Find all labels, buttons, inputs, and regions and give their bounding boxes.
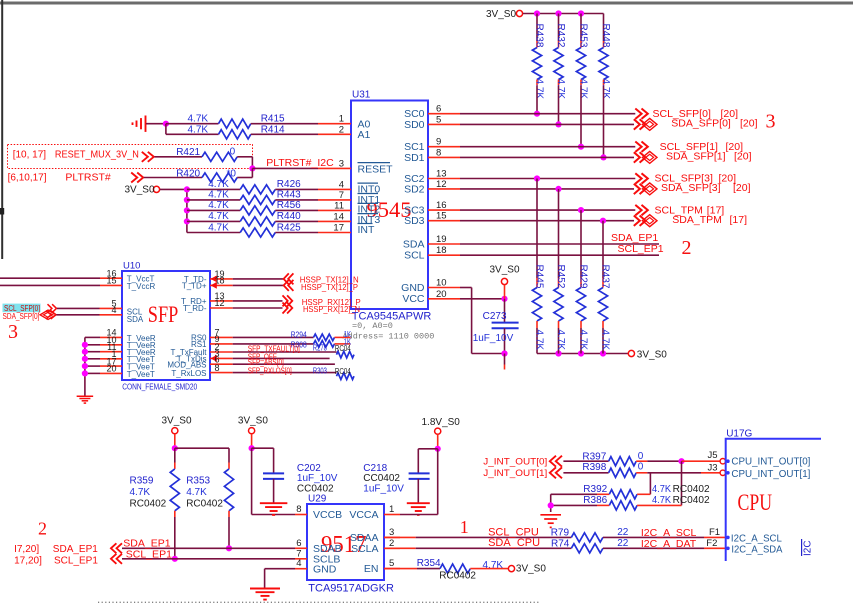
resistor R359 4.7K: [174, 448, 176, 462]
wire GND pin4 U29: [265, 568, 295, 570]
svg-text:SDA: SDA: [127, 315, 144, 324]
junction: [555, 121, 561, 127]
svg-text:R397: R397: [582, 451, 606, 462]
wire 3V to column: [160, 188, 187, 190]
svg-text:8: 8: [436, 147, 441, 158]
power 3V_S0: [172, 428, 178, 434]
pin CPU_INT_OUT[0]: [726, 459, 730, 463]
ground G2 SFP: [77, 395, 94, 397]
junction: [600, 154, 606, 160]
resistor R386 4.7K: [551, 504, 597, 506]
net HSSP_RX[12]_N: [233, 307, 283, 309]
svg-text:R443: R443: [277, 190, 301, 201]
svg-text:U10: U10: [123, 261, 140, 272]
pin 8 U29 VCCB: [295, 514, 307, 516]
net SCL_EP1: [460, 254, 659, 256]
junction: [82, 363, 88, 369]
capacitor C273 1uF_10V: [504, 299, 506, 322]
wire R354 to 3V: [470, 568, 508, 570]
svg-text:16: 16: [436, 200, 447, 211]
svg-text:SDA_CPU: SDA_CPU: [488, 537, 540, 549]
pin 2 U31: [318, 133, 351, 135]
power 3V_S0 R354: [508, 566, 514, 572]
svg-text:I2C: I2C: [803, 540, 814, 556]
net SDA_SFP[1]: [460, 156, 634, 158]
svg-text:SDA_TPM: SDA_TPM: [672, 214, 722, 226]
resistor R452 4.7K: [558, 189, 560, 278]
svg-text:0: 0: [230, 147, 236, 158]
svg-text:RC0402: RC0402: [130, 499, 167, 510]
svg-text:RC0402: RC0402: [439, 570, 476, 581]
svg-text:TCA9517ADGKR: TCA9517ADGKR: [308, 583, 394, 595]
net SCL_SFP[0]: [460, 113, 635, 115]
resistor R420 *0: [144, 177, 202, 179]
svg-text:VCC: VCC: [402, 293, 425, 305]
resistor R354 4.7K: [384, 568, 417, 570]
svg-text:15: 15: [436, 211, 447, 222]
svg-text:SDA_SFP[3]: SDA_SFP[3]: [661, 182, 721, 194]
resistor R392 4.7K: [551, 493, 597, 495]
svg-text:18: 18: [436, 245, 447, 256]
pin 14 SFP T_VeeR: [85, 336, 100, 338]
svg-text:0: 0: [638, 451, 644, 462]
junction: [578, 207, 584, 213]
svg-text:22: 22: [617, 538, 629, 549]
wire power stub: [251, 434, 253, 448]
resistor R429 4.7K: [580, 210, 582, 278]
resistor R308 1K: [233, 343, 314, 345]
svg-text:17,20]: 17,20]: [14, 556, 42, 567]
capacitor C202 1uF_10V: [252, 447, 274, 449]
svg-text:22: 22: [617, 527, 629, 538]
junction: [226, 545, 232, 551]
svg-text:4.7K: 4.7K: [208, 222, 229, 233]
junction: [578, 10, 584, 16]
pin 18 SFP T_TD+: [210, 284, 233, 286]
svg-text:R445: R445: [534, 265, 545, 289]
svg-text:R426: R426: [277, 179, 301, 190]
svg-text:4.7K: 4.7K: [534, 330, 545, 351]
pin 4 U29 GND: [295, 568, 307, 570]
svg-text:SDA_EP1: SDA_EP1: [611, 232, 658, 244]
pin 17 SFP T_VeeT: [85, 365, 100, 367]
resistor R440 4.7K: [187, 220, 240, 222]
svg-text:4.7K: 4.7K: [600, 330, 611, 351]
svg-text:SCLA: SCLA: [351, 543, 378, 555]
wire stub below C273: [504, 354, 506, 365]
pin 5 SFP SCL: [57, 307, 100, 309]
svg-text:3V_S0: 3V_S0: [486, 9, 516, 20]
svg-text:SDA: SDA: [403, 238, 425, 250]
junction: [600, 350, 606, 356]
svg-text:12: 12: [215, 298, 225, 308]
pin 7 U29 SCLB: [295, 558, 307, 560]
net SCL_SFP[3]: [460, 178, 635, 180]
net HSSP_RX[12]_P: [233, 300, 283, 302]
wire to J5: [682, 460, 721, 462]
wire 3V_S0 top rail: [523, 13, 604, 15]
svg-text:10: 10: [436, 278, 447, 289]
svg-text:T_VeeT: T_VeeT: [127, 370, 155, 379]
svg-text:4.7K: 4.7K: [208, 190, 229, 201]
svg-text:J_INT_OUT[0]: J_INT_OUT[0]: [483, 457, 547, 468]
svg-text:RC04: RC04: [335, 343, 351, 353]
svg-text:4.7K: 4.7K: [534, 79, 545, 100]
svg-text:3: 3: [8, 321, 18, 343]
selection box RESET_MUX: [8, 145, 253, 169]
wire lower rail 3V_S0: [537, 353, 628, 355]
svg-text:SFP: SFP: [148, 302, 179, 327]
svg-text:R425: R425: [277, 222, 301, 233]
svg-text:1uF_10V: 1uF_10V: [473, 333, 514, 344]
resistor R456 4.7K: [187, 209, 240, 211]
pin 3 U29 SDAA: [384, 536, 400, 538]
svg-text:15: 15: [106, 276, 116, 286]
svg-text:4.7K: 4.7K: [208, 179, 229, 190]
svg-text:GND: GND: [401, 282, 425, 294]
svg-text:INT: INT: [358, 224, 376, 236]
wire 3V_S0 to VCCB: [251, 448, 253, 514]
svg-text:12: 12: [436, 179, 447, 190]
net SDA_CPU resistor R74 22: [384, 547, 416, 549]
svg-text:R303: R303: [313, 366, 327, 376]
svg-text:5: 5: [436, 114, 441, 125]
svg-text:R452: R452: [555, 265, 566, 289]
svg-text:6: 6: [436, 104, 441, 115]
ground G5 U29: [250, 588, 280, 590]
svg-text:I2C_A_SDA: I2C_A_SDA: [731, 545, 782, 556]
svg-text:SFP_RXLOS[0]: SFP_RXLOS[0]: [248, 366, 292, 375]
pin 6 U29 SDAB: [295, 547, 307, 549]
wire 1.8V to VCCA: [437, 449, 439, 515]
wire GND pin10: [460, 287, 472, 289]
junction: [184, 197, 190, 203]
svg-text:3: 3: [766, 111, 776, 133]
svg-text:RC0402: RC0402: [186, 499, 223, 510]
svg-text:SCL: SCL: [404, 250, 425, 262]
svg-text:SDA_EP1: SDA_EP1: [53, 544, 98, 555]
wire J5 tap down: [681, 461, 683, 505]
wire R453 to bus: [580, 86, 582, 147]
svg-text:Address= 1110 0000: Address= 1110 0000: [343, 332, 435, 342]
svg-text:PLTRST#: PLTRST#: [65, 172, 110, 184]
svg-text:4.7K: 4.7K: [188, 124, 209, 135]
wire power stub: [504, 285, 506, 299]
resistor R453 4.7K: [580, 14, 582, 42]
svg-text:I7,20]: I7,20]: [14, 544, 39, 555]
svg-text:4.7K: 4.7K: [130, 487, 151, 498]
pin J5 bubble: [720, 459, 725, 464]
resistor R426 4.7K: [187, 188, 240, 190]
net SDA_SFP[0]: [460, 123, 634, 125]
junction: [249, 165, 255, 171]
svg-text:4.7K: 4.7K: [208, 200, 229, 211]
svg-text:3V_S0: 3V_S0: [162, 415, 192, 426]
svg-text:U29: U29: [308, 494, 327, 505]
pin 20 U31 VCC: [428, 298, 460, 300]
svg-text:SDA_EP1: SDA_EP1: [123, 537, 170, 549]
power 3V_S0: [501, 278, 507, 284]
svg-text:4.7K: 4.7K: [555, 330, 566, 351]
svg-text:R437: R437: [600, 265, 611, 289]
junction: [548, 502, 554, 508]
junction: [184, 207, 190, 213]
svg-text:5: 5: [389, 558, 394, 569]
svg-text:CONN_FEMALE_SMD20: CONN_FEMALE_SMD20: [122, 382, 197, 392]
svg-text:3V_S0: 3V_S0: [637, 350, 667, 361]
svg-text:PLTRST#_I2C: PLTRST#_I2C: [266, 157, 334, 169]
wire 3V to R353: [175, 447, 229, 449]
svg-text:I2C_A_DAT: I2C_A_DAT: [641, 538, 697, 550]
svg-text:R359: R359: [130, 476, 154, 487]
junction: [555, 186, 561, 192]
svg-text:3: 3: [389, 527, 394, 538]
svg-text:9: 9: [436, 137, 441, 148]
svg-text:13: 13: [436, 169, 447, 180]
wire J3 tap down: [649, 473, 651, 495]
net SFP_ABS[0]: [233, 363, 335, 365]
pin 4 SFP SDA: [56, 314, 99, 316]
svg-text:4.7K: 4.7K: [188, 114, 209, 125]
svg-text:U17G: U17G: [726, 429, 752, 440]
pin 11 SFP T_VeeR: [85, 351, 100, 353]
resistor R414 4.7K: [166, 133, 219, 135]
pin 19 SFP T_TD-: [210, 278, 233, 280]
net SDA_EP1: [460, 243, 659, 245]
svg-text:4: 4: [111, 305, 116, 315]
svg-text:4: 4: [296, 558, 301, 569]
svg-text:R353: R353: [186, 476, 210, 487]
border frame: [0, 2, 853, 5]
junction: [534, 10, 540, 16]
pin 2 SFP T_TxFault: [210, 351, 233, 353]
net PLTRST#_I2C: [252, 167, 318, 169]
ground G6: [540, 514, 561, 516]
resistor R438 4.7K: [536, 14, 538, 42]
wire R438 to bus: [536, 86, 538, 114]
pin 12 U31 SD2: [428, 188, 460, 190]
resistor R443 4.7K: [187, 199, 240, 201]
svg-text:3V_S0: 3V_S0: [238, 415, 268, 426]
resistor R294 1K: [233, 336, 314, 338]
svg-text:U31: U31: [352, 90, 371, 101]
svg-text:SCL_EP1: SCL_EP1: [54, 556, 98, 567]
svg-text:R354: R354: [417, 558, 441, 569]
svg-text:R440: R440: [277, 211, 301, 222]
wire branch down: [165, 124, 167, 135]
svg-text:4.7K: 4.7K: [652, 484, 671, 495]
svg-text:=0, A0=0: =0, A0=0: [352, 321, 393, 331]
svg-text:4: 4: [339, 179, 344, 190]
svg-text:4.7K: 4.7K: [578, 79, 589, 100]
svg-text:4.7K: 4.7K: [555, 79, 566, 100]
junction: [184, 186, 190, 192]
junction: [534, 111, 540, 117]
svg-text:C273: C273: [483, 311, 507, 322]
wire GND down: [471, 288, 473, 354]
svg-text:SD1: SD1: [404, 152, 425, 164]
svg-text:1: 1: [460, 517, 469, 537]
resistor R425 4.7K: [187, 232, 240, 234]
svg-text:SD0: SD0: [404, 119, 425, 131]
pin I2C_A_SCL: [726, 536, 730, 540]
junction: [578, 144, 584, 150]
svg-text:EN: EN: [364, 563, 379, 575]
pin 15 SFP T_VccR: [0, 284, 100, 286]
svg-text:R420: R420: [176, 169, 200, 180]
pin 13 SFP T_RD+: [210, 300, 233, 302]
pin 6 U31 SC0: [428, 113, 460, 115]
svg-text:HSSP_TX[12]_P: HSSP_TX[12]_P: [301, 283, 359, 292]
junction: [82, 349, 88, 355]
net SCL_EP1 bottom: [111, 554, 117, 564]
svg-text:F1: F1: [709, 527, 720, 538]
svg-text:F2: F2: [706, 538, 717, 549]
svg-text:R278: R278: [313, 343, 327, 353]
net SDA_EP1 bottom: [111, 543, 117, 553]
wire VCC pin20: [460, 298, 505, 300]
resistor R437 4.7K: [602, 221, 604, 278]
pin 3 U31: [318, 167, 351, 169]
svg-text:11: 11: [334, 200, 344, 211]
svg-text:R386: R386: [583, 495, 607, 506]
svg-text:R398: R398: [582, 462, 606, 473]
pin 7 U31: [318, 199, 351, 201]
svg-text:R456: R456: [277, 200, 301, 211]
pin 16 SFP T_VccT: [0, 277, 100, 279]
svg-text:1: 1: [339, 114, 344, 125]
svg-text:[6,10,17]: [6,10,17]: [8, 173, 47, 184]
svg-text:RC0402: RC0402: [673, 484, 710, 495]
wire pullup column: [186, 189, 188, 232]
svg-text:3V_S0: 3V_S0: [125, 184, 155, 195]
svg-text:R438: R438: [534, 24, 545, 48]
pin 12 SFP T_RD-: [210, 307, 233, 309]
svg-text:4.7K: 4.7K: [208, 211, 229, 222]
junction: [163, 121, 169, 127]
pin 5 U29 EN: [384, 568, 400, 570]
wire R448 to bus: [603, 86, 605, 157]
pin J3 bubble: [720, 470, 725, 475]
junction: [555, 10, 561, 16]
svg-text:7: 7: [339, 190, 344, 201]
capacitor C218 1uF_10V: [418, 448, 437, 450]
svg-text:[20]: [20]: [740, 118, 758, 130]
svg-text:2: 2: [339, 124, 344, 135]
svg-text:8: 8: [215, 363, 220, 373]
svg-text:17: 17: [333, 223, 344, 234]
svg-text:8: 8: [296, 504, 301, 515]
net SCL_TPM: [460, 209, 635, 211]
junction: [249, 445, 255, 451]
pin 9 U31 SC1: [428, 146, 460, 148]
pin 4 U31: [318, 188, 351, 190]
net SDA_TPM: [460, 220, 634, 222]
svg-text:RESET_MUX_3V_N: RESET_MUX_3V_N: [55, 149, 139, 161]
net SDA_SFP[3]: [460, 188, 634, 190]
ground G3 C202: [260, 502, 288, 504]
pin 14 U31: [318, 220, 351, 222]
svg-text:R414: R414: [261, 124, 285, 135]
svg-text:VCCB: VCCB: [313, 509, 342, 521]
svg-text:4.7K: 4.7K: [600, 79, 611, 100]
resistor R421 0: [155, 156, 203, 158]
pin 8 U31 SD1: [428, 156, 460, 158]
wire R432 to bus: [558, 86, 560, 124]
svg-text:20: 20: [436, 289, 447, 300]
pin 8 SFP T_RxLOS: [210, 372, 233, 374]
junction: [600, 218, 606, 224]
svg-text:T_VccR: T_VccR: [127, 282, 156, 291]
svg-text:R79: R79: [551, 528, 570, 539]
net HSSP_TX[12]_N: [233, 278, 284, 280]
resistor R353 4.7K: [228, 448, 230, 462]
pin 2 U29 SCLA: [384, 547, 400, 549]
svg-text:SDA_SFP[1]: SDA_SFP[1]: [666, 151, 726, 163]
svg-text:RC0402: RC0402: [673, 495, 710, 506]
pin 13 U31 SC2: [428, 178, 460, 180]
svg-text:[20]: [20]: [733, 182, 751, 194]
junction: [435, 446, 441, 452]
svg-text:*0: *0: [227, 169, 237, 180]
power 3V_S0 lower rail: [628, 350, 634, 356]
resistor R432 4.7K: [558, 14, 560, 42]
resistor R415 4.7K: [166, 123, 219, 125]
svg-text:3: 3: [339, 158, 344, 169]
pin CPU_INT_OUT[1]: [726, 471, 730, 475]
svg-text:[17]: [17]: [730, 214, 748, 226]
svg-text:0: 0: [638, 461, 644, 472]
svg-text:1uF_10V: 1uF_10V: [363, 483, 404, 494]
junction: [578, 350, 584, 356]
junction: [534, 175, 540, 181]
pin 17 U31: [318, 232, 351, 234]
power 3V_S0: [516, 10, 522, 16]
ground G4 C218: [407, 502, 430, 504]
pin 1 U31: [318, 123, 351, 125]
svg-text:2: 2: [682, 237, 692, 259]
pin I2C_A_SDA: [726, 547, 730, 551]
svg-text:[10, 17]: [10, 17]: [13, 150, 47, 161]
pin 5 U31 SD0: [428, 123, 460, 125]
svg-text:R432: R432: [555, 24, 566, 48]
svg-text:2: 2: [389, 538, 394, 549]
junction: [82, 370, 88, 376]
junction: [501, 296, 507, 302]
svg-text:C202: C202: [297, 463, 321, 474]
junction: [172, 556, 178, 562]
connector U10 SFP body: [122, 271, 210, 380]
pin 20 SFP T_VeeT: [85, 372, 100, 374]
junction: [184, 218, 190, 224]
svg-text:R392: R392: [583, 484, 607, 495]
svg-text:R74: R74: [551, 539, 570, 550]
svg-text:J3: J3: [708, 463, 718, 474]
svg-text:3V_S0: 3V_S0: [490, 264, 520, 275]
net HSSP_TX[12]_P: [233, 284, 284, 286]
svg-text:19: 19: [436, 234, 447, 245]
pin 7 SFP RS0: [210, 336, 233, 338]
svg-text:SDA_SFP[0]: SDA_SFP[0]: [671, 118, 731, 130]
processor U17G CPU body: [726, 439, 821, 561]
svg-text:R421: R421: [176, 147, 200, 158]
svg-text:2: 2: [38, 519, 47, 539]
resistor R448 4.7K: [603, 14, 605, 42]
svg-text:SD3: SD3: [404, 215, 425, 227]
svg-text:SDA_SFP[0]: SDA_SFP[0]: [3, 312, 40, 321]
svg-text:20: 20: [106, 364, 116, 374]
svg-text:R415: R415: [261, 114, 285, 125]
